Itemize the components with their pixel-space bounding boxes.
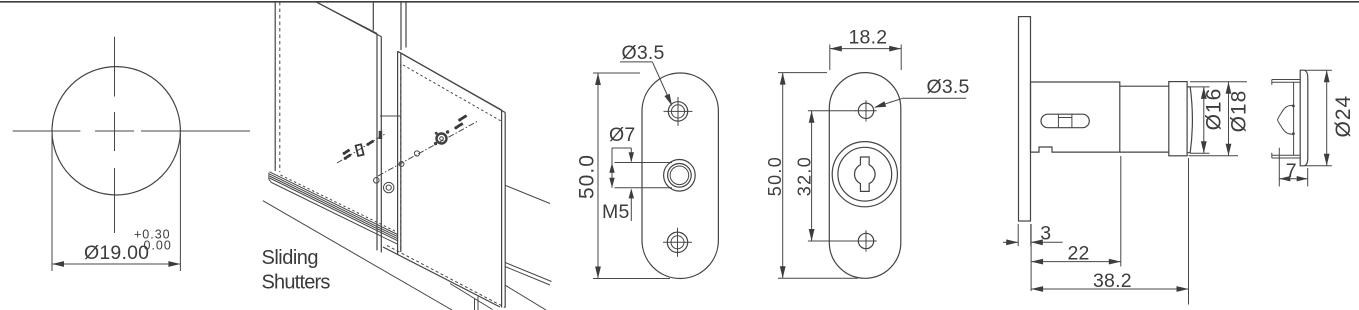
dimension 18.2 top (830, 27, 901, 70)
knob circle Ø19 (52, 67, 180, 195)
domed end face (1187, 87, 1192, 153)
spring wave (1278, 105, 1295, 134)
cabinet edge above right shutter (400, 2, 402, 50)
washer (399, 162, 404, 167)
svg-text:Ø7: Ø7 (609, 124, 635, 146)
shelf line between shutters (380, 115, 401, 117)
side slot (stadium) (1041, 114, 1089, 128)
clip top flange (1272, 79, 1300, 81)
dimension 22 (1031, 156, 1121, 291)
left shutter: right edge (376, 34, 378, 251)
dimension 38.2 (1031, 158, 1188, 305)
dimension Ø24 (1305, 70, 1355, 166)
flange ring Ø18 (1169, 82, 1187, 156)
dash-dot axis left lock (337, 134, 385, 163)
cylinder lug (434, 142, 437, 145)
svg-text:18.2: 18.2 (849, 27, 888, 49)
svg-text:Shutters: Shutters (262, 272, 331, 294)
spring wave end nubs (1292, 105, 1295, 108)
shaft Ø16 (1120, 85, 1169, 87)
M5 stud circles (664, 160, 696, 192)
centerline vertical (114, 37, 116, 233)
svg-text:M5: M5 (602, 201, 630, 223)
extension line left (51, 134, 53, 271)
dash-dot axis right lock (378, 121, 478, 176)
base rail lines (270, 172, 398, 235)
dimension 32.0 (794, 111, 856, 241)
left shutter: left edge (274, 2, 276, 171)
left shutter: bottom glass dotted edge (281, 175, 398, 232)
svg-text:32.0: 32.0 (794, 156, 814, 196)
lock nut on panel (374, 178, 380, 184)
clip stem (1293, 82, 1295, 155)
screw (344, 155, 351, 160)
cabinet bottom edge seen through glass (450, 284, 493, 310)
dimension 7 (1279, 148, 1307, 187)
right shutter bottom edge (383, 247, 500, 307)
cylinder flange ring (437, 134, 447, 144)
dimension 50.0 left (765, 73, 858, 279)
svg-text:Ø16: Ø16 (1203, 88, 1226, 131)
dimension 3 (plate thickness) (1003, 223, 1063, 246)
extension line right (179, 134, 181, 271)
svg-text:50.0: 50.0 (765, 156, 785, 196)
screw (454, 123, 462, 129)
svg-text:Ø24: Ø24 (1332, 95, 1355, 138)
screw (343, 150, 350, 155)
svg-text:Ø19.00: Ø19.00 (84, 242, 149, 264)
svg-text:3: 3 (1040, 223, 1051, 245)
stud extension/outline lines (615, 162, 673, 164)
mounting plate (edge-on) (1019, 17, 1031, 221)
base rail bottom edge (272, 183, 398, 245)
dimension line Ø19.00 (52, 263, 180, 265)
dimension Ø7 (609, 124, 635, 188)
lock body on panel (384, 182, 394, 192)
svg-text:22: 22 (1068, 243, 1090, 265)
right shutter: top edge (398, 51, 502, 110)
lock cylinder circles (832, 142, 897, 207)
latch hole (dark) (379, 131, 383, 139)
screw (458, 116, 466, 122)
lock body with notch (1031, 82, 1120, 152)
right shutter: top glass dotted edge (403, 65, 501, 121)
dimension 50.0 left (576, 73, 671, 279)
svg-text:0.00: 0.00 (144, 239, 172, 253)
slot middle block (1057, 114, 1059, 128)
top screw hole (664, 97, 693, 126)
right shutter bottom glass dotted edge (387, 246, 505, 308)
cabinet shelf edge right of shutter (505, 185, 550, 203)
label Ø3.5 with leader (620, 42, 672, 106)
svg-text:50.0: 50.0 (576, 154, 599, 199)
svg-text:7: 7 (1286, 160, 1297, 182)
svg-text:Ø3.5: Ø3.5 (622, 42, 665, 64)
bottom screw hole (855, 230, 876, 251)
svg-text:Ø3.5: Ø3.5 (927, 76, 970, 98)
interior cabinet verticals seen through glass (474, 298, 476, 310)
base rail right of shutter (505, 263, 551, 282)
right shutter: left edge (397, 51, 399, 254)
floor line right of shutter (505, 285, 546, 310)
spacer (414, 151, 419, 156)
svg-text:38.2: 38.2 (1093, 270, 1132, 292)
strike plate (356, 144, 364, 156)
plate outline (stadium) (642, 73, 718, 279)
floor line (263, 201, 452, 310)
dimension Ø16 (1190, 87, 1226, 153)
dimension Ø18 (1189, 82, 1251, 156)
top screw hole (855, 100, 876, 121)
right shutter: right edge (501, 110, 503, 308)
centerline horizontal (13, 130, 250, 132)
label Ø3.5 with leader (874, 76, 970, 108)
disc (Ø24 edge-on) (1300, 70, 1308, 166)
left shutter: top edge (315, 2, 377, 34)
svg-text:Ø18: Ø18 (1228, 90, 1251, 133)
plate outline (stadium) (829, 73, 901, 279)
label M5 with leader (602, 188, 634, 223)
bottom screw hole (663, 228, 692, 257)
screw (366, 141, 373, 146)
clip bottom flange (1272, 154, 1300, 156)
top border line (0, 1, 1359, 3)
keyway (854, 157, 875, 191)
svg-text:Sliding: Sliding (262, 247, 319, 269)
base rail end cap (268, 173, 270, 180)
left shutter: left glass dotted edge (279, 2, 281, 172)
